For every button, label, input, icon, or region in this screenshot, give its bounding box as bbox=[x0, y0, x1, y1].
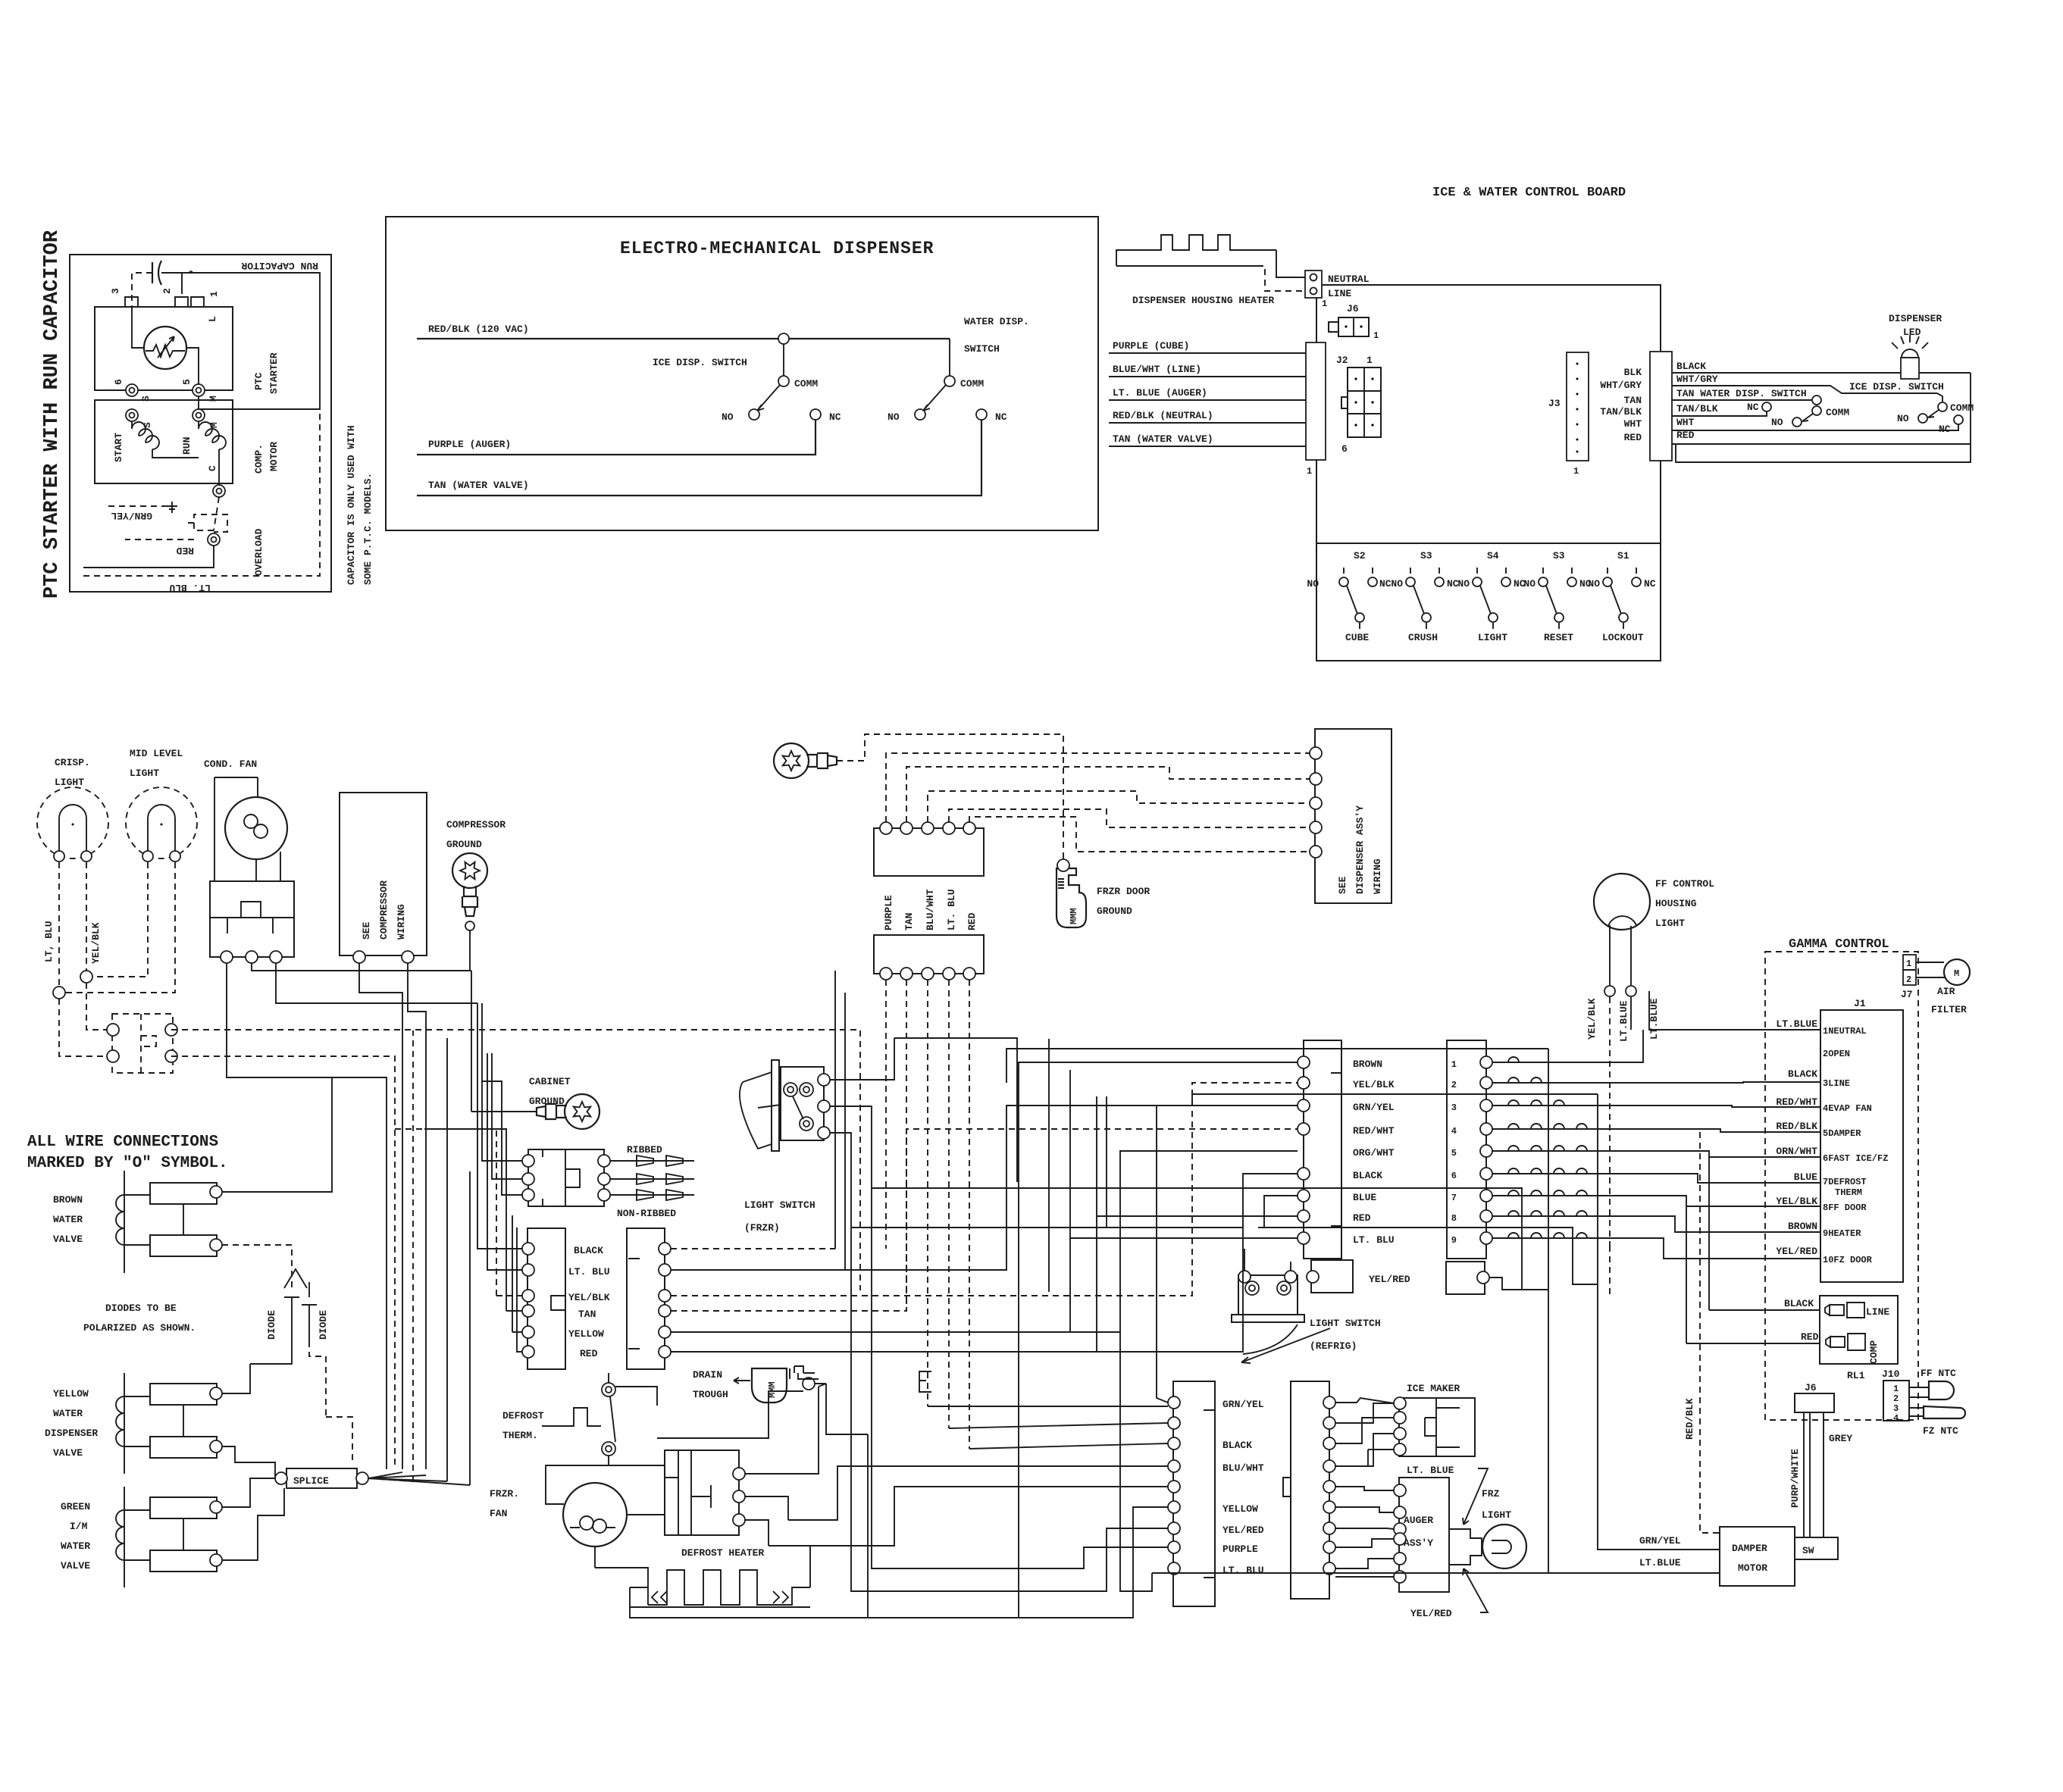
valve wires bbox=[222, 1077, 332, 1192]
svg-text:LT. BLU: LT. BLU bbox=[946, 889, 957, 930]
svg-text:POLARIZED AS SHOWN.: POLARIZED AS SHOWN. bbox=[83, 1322, 196, 1334]
svg-text:MID LEVEL: MID LEVEL bbox=[130, 748, 183, 759]
fan frame bbox=[546, 1465, 665, 1568]
svg-text:COMM: COMM bbox=[1826, 407, 1849, 418]
svg-text:9HEATER: 9HEATER bbox=[1823, 1228, 1861, 1239]
svg-text:COMM: COMM bbox=[794, 378, 818, 389]
svg-text:6: 6 bbox=[113, 379, 124, 385]
wire black 3line bbox=[1492, 1082, 1820, 1083]
lever water switch bbox=[923, 385, 946, 411]
svg-text:FRZR.: FRZR. bbox=[490, 1488, 519, 1500]
terminal comp1 bbox=[353, 951, 365, 963]
drain trough arrow bbox=[734, 1378, 750, 1384]
connector NEUTRAL/LINE bbox=[1305, 271, 1322, 298]
dispenser outer box bbox=[386, 217, 1098, 530]
svg-text:VALVE: VALVE bbox=[53, 1447, 83, 1459]
svg-text:1: 1 bbox=[208, 291, 220, 297]
terminal COMM water bbox=[1812, 406, 1821, 415]
terminal NC water bbox=[976, 409, 987, 420]
defrost assembly block bbox=[665, 1450, 739, 1535]
svg-text:S4: S4 bbox=[1487, 550, 1499, 561]
svg-text:RED: RED bbox=[1676, 430, 1695, 441]
svg-text:TAN WATER DISP. SWITCH: TAN WATER DISP. SWITCH bbox=[1676, 388, 1807, 399]
wire RED/BLK 120VAC bbox=[417, 338, 950, 339]
svg-text:3LINE: 3LINE bbox=[1823, 1078, 1850, 1089]
svg-text:LT. BLU: LT. BLU bbox=[169, 582, 211, 593]
svg-text:1: 1 bbox=[1573, 466, 1579, 477]
svg-text:GRN/YEL: GRN/YEL bbox=[1222, 1399, 1264, 1410]
svg-text:PTC: PTC bbox=[253, 372, 265, 390]
wire RED/BLK vertical bbox=[1700, 1132, 1720, 1533]
svg-text:AUGER: AUGER bbox=[1404, 1515, 1433, 1526]
defrost block wires bbox=[745, 1387, 819, 1587]
svg-text:1: 1 bbox=[1307, 466, 1312, 477]
svg-text:RED/WHT: RED/WHT bbox=[1353, 1125, 1395, 1137]
terminal mid L bbox=[142, 851, 153, 862]
svg-text:SPLICE: SPLICE bbox=[293, 1475, 329, 1487]
junction crisp bbox=[53, 987, 65, 999]
svg-text:ORN/WHT: ORN/WHT bbox=[1776, 1146, 1817, 1157]
terminal rib L3 bbox=[522, 1189, 534, 1201]
svg-text:4EVAP FAN: 4EVAP FAN bbox=[1823, 1103, 1872, 1114]
svg-text:J1: J1 bbox=[1854, 998, 1866, 1009]
svg-text:FAN: FAN bbox=[490, 1508, 507, 1519]
svg-text:DRAIN: DRAIN bbox=[693, 1369, 722, 1381]
svg-text:VALVE: VALVE bbox=[53, 1234, 83, 1245]
fan relay box lower bbox=[210, 918, 294, 957]
svg-text:6: 6 bbox=[1341, 443, 1348, 455]
switch S3b bbox=[1539, 568, 1576, 631]
relay box LINE/COMP bbox=[1820, 1296, 1898, 1364]
svg-text:ORG/WHT: ORG/WHT bbox=[1353, 1147, 1395, 1159]
DAMPER MOTOR box bbox=[1720, 1527, 1795, 1586]
see compressor wiring box bbox=[340, 793, 427, 955]
svg-text:NO: NO bbox=[1523, 578, 1536, 590]
svg-text:NO: NO bbox=[1771, 417, 1783, 428]
svg-text:BLUE: BLUE bbox=[1353, 1192, 1376, 1203]
wire C to overload bbox=[218, 458, 220, 485]
wire lt.blue harness pin1 bbox=[1492, 1030, 1643, 1062]
svg-text:COMM: COMM bbox=[960, 378, 984, 389]
wire cap to circle bbox=[132, 307, 144, 348]
svg-text:2: 2 bbox=[1893, 1393, 1899, 1404]
svg-text:NC: NC bbox=[995, 411, 1007, 423]
svg-text:GROUND: GROUND bbox=[1097, 905, 1132, 917]
compressor ground screw bbox=[452, 853, 487, 916]
svg-text:DEFROST HEATER: DEFROST HEATER bbox=[681, 1547, 764, 1559]
terminal 6 bbox=[126, 384, 138, 396]
terminal th3 bbox=[107, 1050, 119, 1062]
junction yel/blk bbox=[80, 971, 92, 983]
svg-text:TAN (WATER VALVE): TAN (WATER VALVE) bbox=[1113, 433, 1213, 445]
green valve bottom bar bbox=[150, 1550, 217, 1572]
terminal green bottom bbox=[210, 1554, 222, 1566]
svg-text:ICE & WATER CONTROL BOARD: ICE & WATER CONTROL BOARD bbox=[1432, 186, 1626, 200]
PTC resistor circle bbox=[144, 327, 186, 369]
wire tan water valve bbox=[1109, 446, 1306, 447]
svg-text:BROWN: BROWN bbox=[1353, 1059, 1382, 1070]
svg-text:MOTOR: MOTOR bbox=[1738, 1562, 1767, 1574]
switch S2 bbox=[1339, 568, 1377, 631]
wire PURPLE auger bbox=[417, 420, 815, 455]
svg-text:RED/BLK: RED/BLK bbox=[1684, 1398, 1695, 1440]
terminal brown top bbox=[210, 1186, 222, 1198]
wire red/blk neutral bbox=[1109, 422, 1306, 424]
cond fan motor circle bbox=[225, 797, 287, 859]
terminals top bbox=[880, 822, 892, 834]
svg-text:YELLOW: YELLOW bbox=[53, 1388, 89, 1400]
svg-text:DISPENSER ASS'Y: DISPENSER ASS'Y bbox=[1354, 805, 1366, 894]
terminal comp2 bbox=[402, 951, 414, 963]
svg-text:BROWN: BROWN bbox=[53, 1194, 83, 1206]
terminal NO water bbox=[1792, 418, 1802, 427]
wire capacitor right plate bbox=[161, 273, 182, 294]
wire from harness to gamma area verticals bbox=[1548, 1049, 1598, 1218]
wire yelblk to th bbox=[86, 983, 107, 1030]
svg-text:RED: RED bbox=[176, 545, 194, 556]
wire brown 9heater bbox=[1492, 1216, 1820, 1232]
svg-text:THERM: THERM bbox=[1835, 1187, 1862, 1198]
terminals left box bbox=[522, 1243, 534, 1255]
wires top right connections from harness to upper right bbox=[1297, 1083, 1298, 1106]
svg-text:NO: NO bbox=[1307, 578, 1319, 590]
svg-text:DIODE: DIODE bbox=[318, 1310, 329, 1340]
tall connector right bbox=[1291, 1381, 1329, 1599]
wire blue 7defrost bbox=[1492, 1174, 1820, 1183]
switch S4 bbox=[1473, 568, 1510, 631]
svg-text:RESET: RESET bbox=[1544, 632, 1573, 643]
svg-text:FRZR DOOR: FRZR DOOR bbox=[1097, 886, 1150, 897]
brown valve bottom bar bbox=[150, 1235, 217, 1256]
FF CONTROL HOUSING LIGHT bbox=[1594, 874, 1650, 930]
svg-text:ASS'Y: ASS'Y bbox=[1404, 1537, 1433, 1549]
svg-text:5DAMPER: 5DAMPER bbox=[1823, 1128, 1861, 1139]
terminal rib R2 bbox=[598, 1173, 610, 1185]
svg-text:LED: LED bbox=[1903, 327, 1921, 338]
terminal bump 2 bbox=[175, 297, 188, 307]
wire LT. BLU bottom bbox=[83, 546, 214, 568]
wire mid light right down bbox=[65, 862, 175, 993]
svg-text:BLU/WHT: BLU/WHT bbox=[925, 889, 936, 930]
terminal overload bottom bbox=[208, 533, 220, 546]
cond fan frame wire bbox=[214, 777, 258, 881]
wire bottom dashed bbox=[83, 413, 320, 576]
svg-text:8: 8 bbox=[1451, 1213, 1457, 1224]
svg-text:LINE: LINE bbox=[1328, 288, 1351, 299]
svg-text:J2: J2 bbox=[1336, 355, 1348, 366]
center maze: six wires from right connector to right side bbox=[671, 1248, 835, 1249]
yellow valve bottom bar bbox=[150, 1437, 217, 1458]
node ice switch top bbox=[778, 333, 789, 344]
svg-text:(REFRIG): (REFRIG) bbox=[1310, 1340, 1357, 1352]
svg-text:L: L bbox=[207, 316, 218, 322]
svg-text:5: 5 bbox=[1451, 1148, 1457, 1159]
svg-text:S: S bbox=[142, 422, 153, 428]
wire fan t2 bbox=[252, 963, 471, 971]
svg-text:DISPENSER: DISPENSER bbox=[1889, 313, 1942, 324]
splice bundle verticals going up bbox=[447, 1038, 470, 1485]
svg-text:BROWN: BROWN bbox=[1788, 1221, 1817, 1232]
wire yel/red 10fzdoor bbox=[1492, 1238, 1820, 1259]
terminals right of block bbox=[733, 1468, 745, 1480]
svg-text:J6: J6 bbox=[1347, 303, 1359, 314]
svg-text:COND. FAN: COND. FAN bbox=[204, 758, 257, 770]
wires across center to tall connectors bbox=[928, 1406, 1168, 1449]
wire orn/wht 6fast bbox=[1492, 1151, 1820, 1157]
board switch separator bbox=[1316, 543, 1661, 544]
svg-text:LT. BLU: LT. BLU bbox=[1353, 1234, 1395, 1246]
water disp switch: pivot node bbox=[1812, 396, 1821, 405]
wire t1 bbox=[886, 753, 1316, 822]
svg-text:NO: NO bbox=[887, 411, 900, 423]
switch S3 bbox=[1406, 568, 1444, 631]
defrost therm castellation bbox=[542, 1408, 601, 1426]
svg-text:BLUE: BLUE bbox=[1794, 1171, 1817, 1183]
bundle verticals left of gamma bbox=[1686, 1157, 1709, 1343]
yel/red jumper box left bbox=[1311, 1260, 1353, 1293]
svg-text:COMM: COMM bbox=[1950, 402, 1974, 414]
svg-text:VALVE: VALVE bbox=[61, 1560, 90, 1572]
svg-text:RED: RED bbox=[1624, 432, 1642, 443]
LED rays bbox=[1892, 335, 1928, 349]
frzr door ground MMM bbox=[1057, 868, 1086, 927]
svg-text:6FAST ICE/FZ: 6FAST ICE/FZ bbox=[1823, 1153, 1888, 1164]
wires from defrost area right to tall connector bbox=[815, 1384, 868, 1434]
svg-text:WHT/GRY: WHT/GRY bbox=[1600, 380, 1642, 391]
comp plug bbox=[1826, 1334, 1865, 1350]
svg-text:1: 1 bbox=[1366, 355, 1373, 366]
wire GRN/YEL bbox=[1598, 1296, 1720, 1550]
terminal NO water bbox=[915, 409, 925, 420]
svg-text:NC: NC bbox=[1379, 578, 1392, 590]
wire therm top bbox=[609, 1373, 657, 1406]
lower connector pair left box bbox=[527, 1228, 565, 1369]
terminal NO ice bbox=[1918, 414, 1927, 423]
terminal rib R1 bbox=[598, 1155, 610, 1167]
svg-text:COMP.: COMP. bbox=[253, 444, 265, 474]
PTC resistor zigzag bbox=[146, 345, 185, 357]
splice fanout right bbox=[368, 1472, 470, 1485]
svg-text:CABINET: CABINET bbox=[529, 1076, 571, 1087]
svg-text:S2: S2 bbox=[1354, 550, 1366, 561]
overload element bbox=[184, 497, 227, 532]
FZ NTC bbox=[1909, 1408, 1924, 1416]
terminal overload top bbox=[213, 485, 225, 497]
svg-text:NO: NO bbox=[1457, 578, 1470, 590]
defrost therm wires bbox=[609, 1391, 803, 1465]
svg-text:COMPRESSOR: COMPRESSOR bbox=[378, 880, 390, 940]
svg-text:MOTOR: MOTOR bbox=[268, 442, 280, 471]
wire crisp right / yel-blk bbox=[86, 862, 87, 971]
terminal NC ice bbox=[810, 409, 821, 420]
svg-text:TAN/BLK: TAN/BLK bbox=[1600, 406, 1642, 418]
wire comp t1 bbox=[359, 963, 402, 1469]
terminal splice R bbox=[356, 1472, 368, 1484]
svg-text:8FF DOOR: 8FF DOOR bbox=[1823, 1202, 1867, 1213]
wire fan t1 down right bbox=[227, 963, 387, 1469]
svg-text:YEL/BLK: YEL/BLK bbox=[568, 1292, 610, 1303]
svg-text:SEE: SEE bbox=[361, 921, 372, 940]
connector J1 board-left bbox=[1306, 342, 1326, 460]
svg-text:1: 1 bbox=[1451, 1059, 1457, 1070]
wire lt blue auger bbox=[1109, 399, 1306, 401]
yellow valve coil bbox=[116, 1373, 124, 1474]
svg-text:NC: NC bbox=[1939, 424, 1951, 435]
svg-text:10FZ DOOR: 10FZ DOOR bbox=[1823, 1255, 1873, 1265]
svg-text:TAN (WATER VALVE): TAN (WATER VALVE) bbox=[428, 480, 529, 491]
wire-end cones row1 bbox=[610, 1156, 694, 1166]
wires from frzr switch to right bbox=[851, 1038, 1598, 1290]
svg-text:9: 9 bbox=[1451, 1235, 1457, 1246]
lamp leads bbox=[1610, 925, 1631, 985]
defrost heater element bbox=[630, 1570, 810, 1607]
SW box bbox=[1795, 1537, 1838, 1559]
svg-text:START: START bbox=[113, 433, 124, 462]
wire black relay line bbox=[1709, 1309, 1820, 1311]
terminal COMM ice bbox=[778, 376, 789, 386]
svg-text:BLACK: BLACK bbox=[574, 1245, 603, 1256]
terminals bottom bbox=[880, 968, 892, 980]
wire yel/blk 8ffdoor bbox=[1492, 1196, 1820, 1206]
terminal fan1 bbox=[221, 951, 233, 963]
svg-text:AIR: AIR bbox=[1937, 986, 1955, 997]
svg-text:MARKED BY "O" SYMBOL.: MARKED BY "O" SYMBOL. bbox=[27, 1155, 228, 1172]
svg-text:PURPLE (AUGER): PURPLE (AUGER) bbox=[428, 439, 511, 450]
wire t2 bbox=[906, 767, 1316, 822]
wire RED stub bbox=[125, 539, 194, 540]
harness wire bumps bbox=[1508, 1057, 1519, 1062]
brown valve top bar bbox=[150, 1183, 217, 1204]
brown valve coil bbox=[116, 1171, 124, 1273]
svg-text:ALL WIRE CONNECTIONS: ALL WIRE CONNECTIONS bbox=[27, 1134, 218, 1151]
terminal green top bbox=[210, 1501, 222, 1513]
svg-text:GRN/YEL: GRN/YEL bbox=[1639, 1535, 1681, 1546]
svg-text:DIODES TO BE: DIODES TO BE bbox=[105, 1303, 177, 1314]
svg-text:LT.BLUE: LT.BLUE bbox=[1639, 1557, 1681, 1568]
green valve coil bbox=[116, 1487, 124, 1587]
svg-text:*: * bbox=[188, 269, 194, 280]
wire junction to th bbox=[59, 999, 107, 1056]
svg-text:WATER DISP.: WATER DISP. bbox=[964, 316, 1029, 327]
diode 2 bbox=[302, 1282, 317, 1341]
right enclosure bbox=[1676, 373, 1971, 462]
wire blue/wht line bbox=[1109, 376, 1306, 377]
terminal yellow bottom bbox=[210, 1440, 222, 1453]
terminal th4 bbox=[165, 1050, 177, 1062]
svg-text:1: 1 bbox=[1906, 959, 1911, 969]
svg-text:TAN: TAN bbox=[1624, 395, 1642, 406]
wire compressor ground down bbox=[470, 930, 499, 1167]
svg-text:NC: NC bbox=[829, 411, 841, 423]
comp motor box bbox=[95, 400, 233, 483]
svg-text:LT. BLU: LT. BLU bbox=[1222, 1565, 1264, 1576]
terminal mid R bbox=[170, 851, 180, 862]
terminal NC ice bbox=[1954, 415, 1963, 424]
lever water bbox=[1802, 414, 1813, 421]
svg-text:3: 3 bbox=[1451, 1102, 1457, 1113]
svg-text:RED/BLK (120 VAC): RED/BLK (120 VAC) bbox=[428, 324, 529, 335]
svg-text:2: 2 bbox=[1451, 1080, 1457, 1090]
svg-text:WATER: WATER bbox=[61, 1540, 90, 1552]
vertical wires from lower dispenser connector continuing bbox=[1017, 1070, 1107, 1228]
svg-text:ICE MAKER: ICE MAKER bbox=[1407, 1383, 1460, 1394]
svg-text:LT.BLUE: LT.BLUE bbox=[1776, 1018, 1817, 1030]
svg-text:LIGHT SWITCH: LIGHT SWITCH bbox=[744, 1199, 815, 1211]
svg-text:GREEN: GREEN bbox=[61, 1501, 90, 1512]
svg-text:TAN: TAN bbox=[903, 913, 915, 930]
terminal rib L2 bbox=[522, 1173, 534, 1185]
terminal S motor bbox=[126, 409, 138, 421]
svg-text:RED/BLK (NEUTRAL): RED/BLK (NEUTRAL) bbox=[1113, 410, 1213, 421]
svg-text:1: 1 bbox=[1322, 299, 1327, 309]
svg-text:RUN: RUN bbox=[181, 437, 193, 455]
terminals right box bbox=[659, 1243, 671, 1255]
terminal crisp R bbox=[81, 851, 92, 862]
wire capacitor left plate bbox=[132, 273, 152, 307]
board outline bbox=[1316, 285, 1661, 661]
svg-text:DEFROST: DEFROST bbox=[502, 1410, 544, 1421]
terminal yellow top bbox=[210, 1387, 222, 1400]
svg-text:ELECTRO-MECHANICAL DISPENSER: ELECTRO-MECHANICAL DISPENSER bbox=[620, 239, 934, 258]
svg-text:NEUTRAL: NEUTRAL bbox=[1328, 274, 1370, 285]
start winding coil bbox=[132, 421, 199, 458]
svg-text:NO: NO bbox=[1897, 413, 1909, 424]
cabinet ground screw bbox=[537, 1094, 599, 1129]
svg-text:RED: RED bbox=[1353, 1212, 1371, 1224]
frzr fan coil bbox=[580, 1516, 593, 1530]
wire comp t2 bbox=[408, 963, 426, 1469]
svg-text:4: 4 bbox=[1451, 1126, 1457, 1137]
svg-text:TROUGH: TROUGH bbox=[693, 1389, 728, 1400]
defrost therm switch bbox=[602, 1383, 615, 1396]
J1 pin wires to harness bundle bbox=[1631, 991, 1820, 1030]
svg-text:C: C bbox=[207, 465, 218, 471]
wire t3 bbox=[928, 791, 1316, 822]
svg-text:S3: S3 bbox=[1420, 550, 1432, 561]
wire fan t3 bbox=[276, 963, 477, 1003]
svg-text:DISPENSER: DISPENSER bbox=[45, 1428, 98, 1439]
svg-text:BLACK: BLACK bbox=[1222, 1440, 1252, 1451]
svg-text:J7: J7 bbox=[1901, 989, 1913, 1000]
svg-text:ICE DISP. SWITCH: ICE DISP. SWITCH bbox=[653, 357, 747, 368]
svg-text:5: 5 bbox=[181, 379, 193, 385]
svg-text:GAMMA CONTROL: GAMMA CONTROL bbox=[1789, 937, 1889, 952]
svg-text:I/M: I/M bbox=[70, 1521, 88, 1532]
svg-text:WIRING: WIRING bbox=[396, 904, 407, 940]
svg-text:M: M bbox=[208, 422, 220, 428]
wire yel/blk vertical from lamp bbox=[1609, 997, 1611, 1296]
lamp socket bbox=[1449, 1529, 1482, 1565]
svg-text:LIGHT: LIGHT bbox=[130, 768, 159, 779]
svg-text:LT. BLU: LT. BLU bbox=[568, 1266, 610, 1278]
cond fan coil bbox=[244, 815, 258, 828]
wire t5 bbox=[969, 817, 1316, 852]
terminal NO ice bbox=[749, 409, 759, 420]
svg-text:7DEFROST: 7DEFROST bbox=[1823, 1177, 1867, 1187]
svg-text:SEE: SEE bbox=[1337, 876, 1348, 894]
svg-text:1NEUTRAL: 1NEUTRAL bbox=[1823, 1026, 1867, 1037]
svg-text:2OPEN: 2OPEN bbox=[1823, 1049, 1850, 1059]
splice box bbox=[286, 1468, 357, 1488]
capacitor C (run capacitor) bbox=[152, 261, 161, 285]
svg-text:BLUE/WHT (LINE): BLUE/WHT (LINE) bbox=[1113, 364, 1201, 375]
svg-text:NC: NC bbox=[1644, 578, 1656, 590]
svg-text:YEL/RED: YEL/RED bbox=[1410, 1608, 1452, 1619]
dispenser housing heater element bbox=[1116, 235, 1276, 266]
wire ground to frzr door gnd bbox=[837, 734, 1063, 861]
J1 box bbox=[1820, 1010, 1903, 1282]
terminal crisp L bbox=[54, 851, 64, 862]
